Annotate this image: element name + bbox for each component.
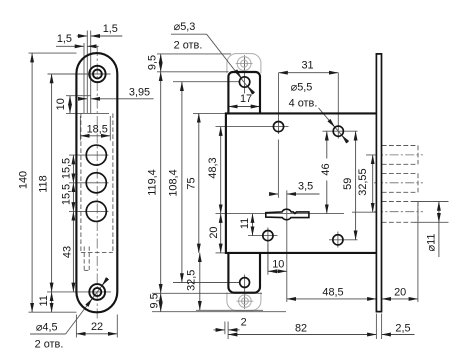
extension line 32,55 bottom bbox=[352, 211, 377, 213]
faceplate top countersunk hole bbox=[89, 66, 105, 82]
dimension 15,5 upper bbox=[72, 155, 74, 183]
extension line top tab hole centre bbox=[173, 81, 240, 83]
dimension 140 bbox=[31, 53, 33, 312]
extension line for 20/75 bottom bbox=[216, 252, 226, 254]
bottom tab hole bbox=[240, 278, 250, 288]
svg-text:46: 46 bbox=[320, 163, 332, 175]
phantom faceplate end above top tab bbox=[227, 54, 261, 74]
dimension 20 left bbox=[220, 214, 222, 253]
svg-text:32,55: 32,55 bbox=[357, 168, 369, 195]
extension line hole C for 10 bbox=[267, 244, 269, 275]
svg-text:31: 31 bbox=[301, 60, 313, 72]
dimension 20 bottom right bbox=[382, 298, 418, 300]
svg-text:82: 82 bbox=[295, 322, 307, 334]
leader and label o4,5 / 2 holes bbox=[30, 333, 66, 335]
svg-text:59: 59 bbox=[342, 178, 354, 190]
svg-text:⌀11: ⌀11 bbox=[426, 234, 438, 252]
dimension 1,5 left bbox=[56, 45, 84, 47]
dimension 46 bbox=[326, 131, 328, 158]
svg-text:4 отв.: 4 отв. bbox=[289, 98, 318, 110]
svg-text:3,5: 3,5 bbox=[298, 180, 313, 192]
svg-text:1,5: 1,5 bbox=[57, 33, 72, 45]
extension line hole A centre bbox=[216, 126, 289, 128]
dimension 9,5 bottom bbox=[160, 293, 162, 311]
svg-text:119,4: 119,4 bbox=[147, 169, 159, 195]
centre line hole D vertical bbox=[337, 232, 339, 248]
svg-text:10: 10 bbox=[272, 258, 284, 270]
hidden slot below body (dashed) bbox=[83, 247, 85, 271]
svg-text:75: 75 bbox=[185, 177, 197, 189]
svg-text:⌀5,5: ⌀5,5 bbox=[291, 81, 313, 93]
extension lines for 2 bbox=[224, 322, 226, 335]
phantom faceplate end below bottom tab bbox=[227, 292, 261, 310]
faceplate bottom countersunk hole bbox=[89, 284, 105, 300]
faceplate large hole 2 bbox=[86, 173, 106, 193]
dimension 1,5 right bbox=[77, 35, 88, 37]
dimension 119,4 bbox=[160, 72, 162, 293]
svg-text:15,5: 15,5 bbox=[60, 158, 72, 179]
body hole A bbox=[273, 122, 283, 132]
svg-text:15,5: 15,5 bbox=[60, 184, 72, 205]
svg-text:48,3: 48,3 bbox=[207, 157, 219, 178]
svg-text:9,5: 9,5 bbox=[147, 55, 159, 70]
dimension 48,3 bbox=[220, 127, 222, 214]
svg-text:17: 17 bbox=[240, 93, 252, 105]
extension lines bolt diameter bbox=[415, 201, 449, 203]
faceplate large hole 1 bbox=[86, 145, 106, 165]
dimension diam 11 bolt bbox=[438, 202, 440, 223]
extension line for 75 top bbox=[193, 112, 226, 114]
svg-text:43: 43 bbox=[61, 246, 73, 258]
svg-text:9,5: 9,5 bbox=[149, 293, 161, 308]
extension line hole B horizontal bbox=[323, 130, 358, 132]
body hole B bbox=[333, 126, 343, 136]
svg-text:22: 22 bbox=[91, 321, 103, 333]
leader o5,5 / 4 holes bbox=[319, 108, 344, 138]
extension line hole D horizontal bbox=[329, 239, 358, 241]
extension lines for 18,5 bbox=[79, 116, 81, 141]
dimension 59 bbox=[355, 131, 357, 240]
svg-text:11: 11 bbox=[239, 218, 251, 229]
faceplate outline bbox=[76, 53, 117, 312]
dimension 32,5 bbox=[199, 253, 201, 310]
centre line through top tab hole vertical bbox=[244, 55, 246, 93]
top mounting tab bbox=[228, 72, 260, 113]
svg-text:2 отв.: 2 отв. bbox=[35, 339, 64, 351]
svg-text:2: 2 bbox=[241, 317, 247, 329]
latch bolt 2 hidden bbox=[382, 172, 418, 174]
svg-text:20: 20 bbox=[208, 227, 220, 239]
extension line hole C horizontal bbox=[248, 235, 278, 237]
dimension 11 (bottom hole to plate end) bbox=[51, 292, 53, 312]
extension lines for 2,5 bbox=[375, 314, 377, 340]
dimension 22 (plate width) bbox=[75, 315, 77, 338]
dimension 82 bbox=[228, 334, 376, 336]
svg-text:11: 11 bbox=[38, 295, 50, 306]
top tab hole bbox=[239, 77, 249, 87]
dimension 11 (key to hole C) bbox=[252, 214, 254, 236]
latch bolt 1 hidden bbox=[382, 145, 418, 147]
dimension 118 bbox=[51, 74, 53, 292]
dimension 9,5 top bbox=[160, 54, 162, 72]
body hole D bbox=[333, 235, 343, 245]
body hole C bbox=[263, 231, 273, 241]
extension line tab top bbox=[157, 71, 229, 73]
dimension 2,5 bbox=[382, 334, 415, 336]
svg-text:2 отв.: 2 отв. bbox=[174, 40, 203, 52]
dimension 108,4 bbox=[181, 82, 183, 283]
dimension 3,95 leader bbox=[80, 98, 87, 100]
dimension 2 bbox=[214, 329, 225, 331]
svg-text:3,95: 3,95 bbox=[129, 87, 150, 99]
svg-text:118: 118 bbox=[38, 175, 50, 192]
extension line bottom hole centre bbox=[47, 291, 111, 293]
extension line latch1 centre (32,55) bbox=[366, 154, 383, 156]
extension line body top hidden (10) bbox=[66, 112, 109, 114]
svg-text:108,4: 108,4 bbox=[168, 169, 180, 196]
svg-text:1,5: 1,5 bbox=[103, 23, 118, 35]
dimension 75 bbox=[198, 113, 200, 253]
faceplate large hole 3 bbox=[86, 201, 106, 221]
hidden lock body behind faceplate (dashed) bbox=[80, 113, 82, 252]
leader o5,3 / 2 holes bbox=[171, 33, 207, 35]
extension line tab bottom bbox=[152, 292, 262, 294]
faceplate edge-on strip bbox=[376, 54, 381, 312]
centre line hole B vertical bbox=[337, 73, 339, 139]
extension line latch right end bbox=[417, 202, 419, 302]
extension line plate bottom bbox=[29, 311, 77, 313]
key bit profile bbox=[266, 209, 309, 220]
dimension 10 (slot length) bbox=[69, 96, 71, 114]
centre line hole A vertical bbox=[278, 73, 280, 134]
key centre line vertical bbox=[286, 190, 288, 302]
extension line bottom tab hole centre bbox=[173, 282, 240, 284]
svg-text:18,5: 18,5 bbox=[87, 123, 108, 135]
svg-text:48,5: 48,5 bbox=[322, 287, 343, 299]
faceplate centre line bbox=[96, 46, 98, 320]
svg-text:32,5: 32,5 bbox=[186, 270, 198, 291]
deadbolt 3 hidden (diam 11) bbox=[382, 201, 418, 203]
dimension 3,5 (hole A to key centre) bbox=[271, 193, 279, 195]
svg-text:⌀4,5: ⌀4,5 bbox=[36, 321, 58, 333]
extension lines big holes centres bbox=[69, 154, 109, 156]
svg-text:140: 140 bbox=[18, 171, 30, 189]
centre line hole C vertical bbox=[267, 228, 269, 272]
dimension 15,5 lower bbox=[72, 183, 74, 212]
centre line hole A vertical lower segment bbox=[277, 140, 279, 198]
svg-text:⌀5,3: ⌀5,3 bbox=[174, 21, 196, 33]
extension line strip top bbox=[157, 53, 231, 55]
key centre line horizontal bbox=[216, 213, 345, 215]
bend/slot feature lines near plate top bbox=[83, 43, 85, 113]
dimension 43 bbox=[72, 211, 74, 292]
dimension 31 bbox=[279, 72, 339, 74]
extension line phantom bottom (32,5) bbox=[196, 309, 263, 311]
svg-text:10: 10 bbox=[55, 98, 67, 110]
dimension 48,5 bbox=[287, 298, 377, 300]
extension line top hole centre bbox=[48, 73, 111, 75]
extension line slot top (10) bbox=[66, 95, 91, 97]
dimension 18,5 (hidden body width) bbox=[80, 135, 110, 137]
extension line plate top bbox=[29, 52, 77, 54]
extension line strip bottom bbox=[152, 311, 286, 313]
svg-text:2,5: 2,5 bbox=[395, 322, 410, 334]
bottom mounting tab bbox=[228, 253, 260, 293]
dimension 17 bbox=[228, 106, 260, 108]
svg-text:20: 20 bbox=[394, 287, 406, 299]
dimension 32,55 bbox=[372, 155, 374, 212]
dimension 10 bottom bbox=[268, 270, 287, 272]
centre line through bottom tab hole vertical bbox=[244, 275, 246, 309]
lock body outline bbox=[226, 113, 377, 253]
